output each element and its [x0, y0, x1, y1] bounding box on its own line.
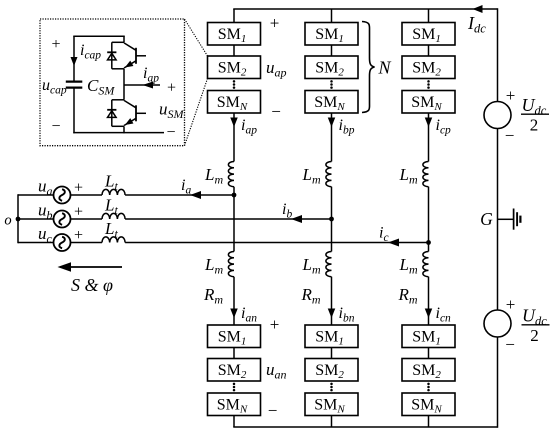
wire lower stack to DC bus (phase a)	[233, 416, 235, 428]
wire upper stack to Lm (phase c)	[428, 113, 430, 162]
SM2 box (phase b upper arm)	[305, 56, 358, 79]
SM2 box (phase c lower arm)	[402, 359, 455, 382]
inductor Lt (phase b)	[102, 213, 125, 219]
wire SM bottom	[73, 132, 164, 134]
svg-text:+: +	[74, 204, 83, 221]
SM2 box (phase a upper arm)	[208, 56, 261, 79]
SM1 box (phase a lower arm)	[208, 325, 261, 348]
wire between SM1-SM2 (b upper)	[331, 45, 333, 56]
svg-text:+: +	[74, 180, 83, 197]
dashed box (SM detail)	[40, 19, 185, 146]
svg-text:2: 2	[530, 326, 539, 345]
wire DC bus to upper stack (phase c)	[428, 9, 430, 23]
i_ap arrow	[230, 118, 238, 128]
dotted ellipsis SM2-SMN (b lower)	[330, 383, 333, 386]
wire upper stack to Lm (phase b)	[331, 113, 333, 162]
svg-text:−: −	[271, 102, 281, 121]
inductor Lm upper (phase a)	[228, 162, 234, 187]
inductor Lt (phase c)	[102, 237, 125, 243]
svg-text:+: +	[270, 14, 280, 33]
node o	[16, 217, 21, 222]
ground G	[498, 218, 514, 220]
IGBT T1/D1	[112, 41, 124, 43]
dashed connector bottom	[185, 79, 208, 146]
inductor Lm lower (phase a)	[228, 252, 234, 277]
SMN box (phase a upper arm)	[208, 91, 261, 114]
junction node (phase a)	[232, 193, 237, 198]
i_bp arrow	[328, 118, 336, 128]
svg-text:−: −	[166, 124, 175, 141]
wire source to Lt (phase b)	[71, 218, 102, 220]
voltage source Udc/2 (bottom)	[484, 310, 511, 337]
SM2 box (phase c upper arm)	[402, 56, 455, 79]
wire Lm lower to lower stack (phase c)	[428, 277, 430, 325]
i_bn arrow	[328, 309, 336, 319]
SMN box (phase c lower arm)	[402, 393, 455, 416]
svg-text:+: +	[506, 86, 516, 105]
svg-text:2: 2	[530, 116, 539, 135]
wire Lm to junction and down (phase a)	[233, 187, 235, 252]
svg-text:N: N	[377, 58, 391, 78]
svg-text:−: −	[51, 118, 60, 135]
wire between SM1-SM2 (c lower)	[428, 348, 430, 359]
AC source u_c	[54, 234, 71, 251]
wire between SM1-SM2 (b lower)	[331, 348, 333, 359]
junction node (phase c)	[426, 240, 431, 245]
dotted ellipsis SM2-SMN (c upper)	[427, 80, 430, 83]
wire Lm to junction and down (phase c)	[428, 187, 430, 252]
svg-text:+: +	[167, 80, 176, 97]
wire lower stack to DC bus (phase b)	[331, 416, 333, 428]
diode T1/D1	[111, 42, 113, 69]
brace N (phase b stack)	[362, 22, 375, 113]
SM1 box (phase b lower arm)	[305, 325, 358, 348]
wire SM top	[73, 35, 125, 37]
SMN box (phase c upper arm)	[402, 91, 455, 114]
i_c arrow	[388, 239, 399, 247]
wire left vertical (node o rail)	[17, 194, 19, 243]
inductor Lt (phase a)	[102, 189, 125, 195]
wire lower stack to DC bus (phase c)	[428, 416, 430, 428]
inductor Lm lower (phase c)	[423, 252, 429, 277]
svg-text:G: G	[480, 209, 493, 229]
inductor Lm upper (phase b)	[326, 162, 332, 187]
dashed connector top	[185, 19, 208, 56]
junction node (phase b)	[329, 217, 334, 222]
AC source u_b	[54, 211, 71, 228]
SM1 box (phase a upper arm)	[208, 23, 261, 46]
svg-text:+: +	[51, 36, 60, 53]
wire midpoint to lower IGBT	[123, 85, 125, 100]
i_cap arrow	[71, 57, 78, 66]
wire top DC bus	[233, 8, 497, 10]
wire source to Lt (phase c)	[71, 242, 102, 244]
wire Lt to leg (phase b)	[125, 218, 331, 220]
wire phase line c (left of source)	[18, 242, 54, 244]
i_cp arrow	[425, 118, 433, 128]
wire Lm to junction and down (phase b)	[331, 187, 333, 252]
wire Lm lower to lower stack (phase a)	[233, 277, 235, 325]
wire bottom DC bus	[233, 426, 497, 428]
inductor Lm upper (phase c)	[423, 162, 429, 187]
capacitor C_SM	[66, 80, 83, 82]
wire right DC rail	[497, 8, 499, 428]
SMN box (phase a lower arm)	[208, 393, 261, 416]
wire DC bus to upper stack (phase b)	[331, 9, 333, 23]
IGBT T2/D2	[112, 99, 124, 101]
i_b arrow	[291, 215, 302, 223]
wire between SM1-SM2 (c upper)	[428, 45, 430, 56]
i_a arrow	[190, 191, 201, 199]
voltage source Udc/2 (top)	[484, 102, 511, 129]
SM2 box (phase b lower arm)	[305, 359, 358, 382]
SMN box (phase b upper arm)	[305, 91, 358, 114]
SM1 box (phase c lower arm)	[402, 325, 455, 348]
wire to midpoint	[123, 69, 125, 85]
svg-text:o: o	[4, 213, 11, 229]
SMN box (phase b lower arm)	[305, 393, 358, 416]
inductor Lm lower (phase b)	[326, 252, 332, 277]
AC source u_a	[54, 187, 71, 204]
wire upper stack to Lm (phase a)	[233, 113, 235, 162]
dotted ellipsis SM2-SMN (a lower)	[233, 383, 236, 386]
wire between SM1-SM2 (a upper)	[233, 45, 235, 56]
dotted ellipsis SM2-SMN (b upper)	[330, 80, 333, 83]
wire between SM1-SM2 (a lower)	[233, 348, 235, 359]
i_an arrow	[230, 309, 238, 319]
svg-text:−: −	[505, 335, 515, 354]
SM1 box (phase c upper arm)	[402, 23, 455, 46]
SM1 box (phase b upper arm)	[305, 23, 358, 46]
SM2 box (phase a lower arm)	[208, 359, 261, 382]
wire cap branch upper	[73, 36, 75, 81]
wire phase line a (left of source)	[18, 194, 54, 196]
i_cn arrow	[425, 309, 433, 319]
wire Lm lower to lower stack (phase b)	[331, 277, 333, 325]
svg-text:−: −	[505, 126, 515, 145]
dotted ellipsis SM2-SMN (c lower)	[427, 383, 430, 386]
wire midpoint output	[124, 84, 160, 86]
svg-text:+: +	[270, 315, 280, 334]
svg-text:S & φ: S & φ	[71, 275, 113, 295]
wire lower IGBT to bottom	[123, 126, 125, 133]
i_ap arrow (SM detail)	[143, 82, 154, 89]
I_dc arrow	[473, 5, 483, 13]
wire Lt to leg (phase a)	[125, 194, 234, 196]
wire cap branch lower	[73, 88, 75, 133]
svg-text:+: +	[506, 295, 516, 314]
wire Lt to leg (phase c)	[125, 242, 428, 244]
diode T2/D2	[111, 100, 113, 127]
wire DC bus to upper stack (phase a)	[233, 9, 235, 23]
S & phi arrow	[60, 266, 122, 268]
wire phase line b (left of source)	[18, 218, 54, 220]
svg-text:−: −	[268, 401, 278, 420]
wire IGBT branch top	[123, 36, 125, 42]
wire source to Lt (phase a)	[71, 194, 102, 196]
dotted ellipsis SM2-SMN (a upper)	[233, 80, 236, 83]
svg-text:+: +	[74, 227, 83, 244]
